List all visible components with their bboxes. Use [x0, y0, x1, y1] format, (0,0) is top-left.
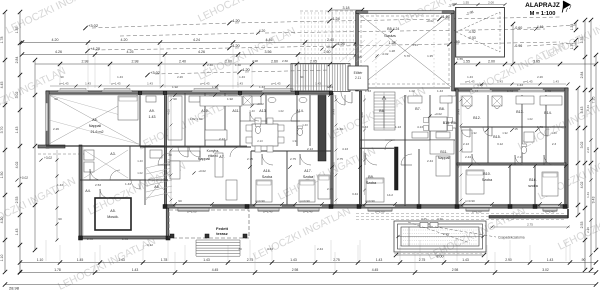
bottom dimension row 3 (y=284.5): [5, 284, 596, 286]
svg-text:+0.02: +0.02: [426, 19, 434, 23]
svg-text:3.18: 3.18: [343, 6, 350, 10]
B corridor staircase: [374, 92, 395, 130]
svg-text:A3.: A3.: [110, 152, 115, 156]
svg-text:M = 1:100: M = 1:100: [530, 11, 556, 17]
svg-text:2.26: 2.26: [537, 75, 543, 79]
svg-text:ALAPRAJZ: ALAPRAJZ: [525, 2, 560, 9]
svg-text:A7.: A7.: [219, 155, 224, 159]
svg-text:B15.: B15.: [493, 135, 500, 139]
bath divider 1: [487, 95, 489, 163]
svg-text:B12.: B12.: [473, 116, 480, 120]
garage east wall: [452, 11, 455, 91]
entry hall arc: [335, 95, 345, 105]
svg-text:A8.: A8.: [154, 185, 159, 189]
right retaining wall: [489, 216, 568, 219]
B7/B11 divider: [360, 139, 455, 141]
svg-text:2.60: 2.60: [282, 59, 288, 63]
svg-text:1.02: 1.02: [278, 109, 284, 113]
svg-text:3.43: 3.43: [457, 109, 461, 115]
dim row above ramp: [455, 4, 505, 6]
garden dim ticks: [56, 159, 59, 162]
B9 east black wall: [395, 147, 399, 190]
svg-text:3.43: 3.43: [332, 109, 336, 115]
dining table set: [252, 124, 278, 146]
svg-text:+4.20: +4.20: [90, 46, 101, 51]
svg-text:3.12: 3.12: [497, 142, 503, 146]
pool divider + center dim: [408, 227, 410, 246]
svg-text:1.02: 1.02: [137, 171, 143, 175]
garage inner dashed insulation line: [361, 16, 449, 84]
right dimension vertical line x=591: [590, 20, 592, 270]
B-wing north rooms extra fixtures: [408, 96, 422, 103]
svg-text:1.43: 1.43: [15, 229, 19, 236]
svg-text:+0.02: +0.02: [20, 176, 28, 180]
svg-text:2.98: 2.98: [82, 60, 89, 64]
kitchen island small: [205, 130, 227, 140]
A9/A10 small fixtures: [146, 96, 156, 102]
left wing bottom wall west stub: [38, 145, 65, 148]
svg-text:3.43: 3.43: [362, 125, 368, 129]
east exterior wall: [565, 88, 568, 208]
svg-text:4.64: 4.64: [477, 83, 483, 87]
svg-text:p=0.90: p=0.90: [465, 199, 475, 203]
wall center spine: [331, 93, 333, 206]
garage west wall: [356, 11, 359, 91]
svg-text:1.78: 1.78: [161, 258, 168, 262]
B10 west wall: [509, 165, 511, 206]
A-wing small rooms top: [184, 93, 186, 146]
svg-text:2.13: 2.13: [307, 147, 313, 151]
driveway vertical dashes: [300, 12, 302, 60]
svg-text:2.75: 2.75: [419, 258, 426, 262]
stairs at lower-left of terrace: [196, 239, 240, 241]
svg-text:1.28: 1.28: [389, 41, 396, 45]
svg-text:2.40: 2.40: [179, 60, 186, 64]
garage north wall: [356, 11, 454, 14]
svg-text:1.02: 1.02: [409, 89, 415, 93]
extension lines top: [87, 44, 89, 89]
bathroom cluster extras: [243, 96, 252, 105]
svg-text:3.12: 3.12: [147, 243, 153, 247]
left dimension vertical line x=20: [19, 12, 21, 272]
svg-text:+0.02: +0.02: [256, 102, 264, 106]
B12/B13 shower squares: [462, 96, 472, 106]
garage X cross: [359, 14, 451, 87]
svg-text:4.02: 4.02: [15, 162, 19, 169]
svg-text:p=1.43: p=1.43: [60, 82, 69, 86]
csapadekcsatorna leader: [430, 226, 496, 237]
svg-text:B14.: B14.: [544, 111, 551, 115]
east wall of lower-left wing: [166, 206, 169, 239]
svg-text:1.35: 1.35: [15, 27, 19, 34]
svg-text:2.60: 2.60: [324, 50, 331, 54]
svg-text:2.26: 2.26: [586, 227, 590, 233]
B living west wall: [456, 89, 458, 206]
svg-text:1.43: 1.43: [117, 75, 123, 79]
living south wall: [140, 146, 251, 148]
svg-text:+0.02: +0.02: [434, 112, 442, 116]
B hall east wall: [418, 149, 420, 205]
svg-text:3.44: 3.44: [352, 192, 358, 196]
svg-text:A10.: A10.: [201, 109, 208, 113]
svg-text:4.46: 4.46: [266, 38, 273, 42]
svg-text:1.35: 1.35: [570, 24, 574, 31]
svg-text:B8.: B8.: [439, 107, 444, 111]
svg-text:1.43: 1.43: [497, 80, 503, 84]
covered terrace (Fedett terasz): [169, 210, 249, 238]
svg-text:1.50: 1.50: [0, 172, 4, 179]
garage apron diagonal hatch: [340, 40, 365, 62]
svg-text:0.30: 0.30: [437, 217, 443, 221]
windows on south wall: [175, 205, 212, 207]
svg-text:.90: .90: [581, 258, 586, 262]
svg-text:4.02: 4.02: [457, 162, 461, 168]
svg-text:1.43: 1.43: [249, 109, 255, 113]
svg-text:p=1.43: p=1.43: [272, 82, 281, 86]
svg-text:2.98: 2.98: [132, 60, 139, 64]
svg-text:1.43: 1.43: [553, 80, 559, 84]
svg-text:A9.: A9.: [149, 109, 154, 113]
svg-text:4.20: 4.20: [121, 38, 128, 42]
terrace dashed band: [356, 213, 566, 215]
svg-text:2.98: 2.98: [252, 59, 258, 63]
svg-text:15: 15: [514, 127, 518, 131]
svg-text:3.02: 3.02: [580, 142, 584, 149]
svg-text:2.40: 2.40: [207, 63, 213, 67]
svg-text:1.43: 1.43: [147, 82, 153, 86]
right dimension vertical line x=578: [577, 88, 579, 215]
B8 closet: [448, 96, 456, 128]
svg-text:+0.02: +0.02: [198, 169, 206, 173]
svg-text:4.45: 4.45: [372, 268, 379, 272]
svg-text:4.20: 4.20: [232, 18, 241, 23]
top dimension line row 3 (y=64): [35, 63, 345, 65]
svg-text:2.44: 2.44: [427, 159, 433, 163]
svg-text:1.35: 1.35: [580, 37, 584, 44]
svg-text:15: 15: [358, 55, 362, 59]
svg-text:Szoba: Szoba: [482, 178, 492, 182]
svg-text:2.40: 2.40: [327, 38, 334, 42]
svg-text:p=0.90: p=0.90: [300, 199, 310, 203]
svg-text:2.26: 2.26: [586, 147, 590, 153]
svg-text:3.65: 3.65: [533, 60, 540, 64]
B corridor east wall: [404, 95, 406, 206]
svg-text:1.92: 1.92: [471, 131, 477, 135]
svg-text:2.00: 2.00: [488, 1, 494, 5]
interior ticks: [173, 93, 177, 97]
svg-text:1.43: 1.43: [507, 89, 513, 93]
svg-text:30: 30: [168, 153, 172, 157]
right side elevation labels: [527, 25, 576, 28]
svg-text:3.02: 3.02: [360, 112, 364, 118]
svg-text:B10. Étk.: B10. Étk.: [443, 120, 458, 125]
west exterior wall of left wing: [46, 91, 49, 148]
svg-text:3.02: 3.02: [15, 92, 19, 99]
B16 west wall: [534, 165, 536, 206]
svg-text:4.20: 4.20: [0, 217, 4, 224]
svg-text:A4.: A4.: [85, 189, 90, 193]
svg-text:9.43: 9.43: [592, 197, 596, 204]
south wall of lower-left wing: [79, 236, 169, 239]
svg-text:Csapadékcsatorna: Csapadékcsatorna: [498, 236, 525, 240]
svg-text:1.92: 1.92: [227, 97, 233, 101]
svg-text:A13.: A13.: [259, 109, 266, 113]
svg-text:4.02: 4.02: [167, 109, 171, 115]
svg-text:4.20: 4.20: [259, 29, 266, 33]
elevation leader dashes row D (y=72): [155, 72, 240, 74]
svg-text:14.2: 14.2: [387, 193, 393, 197]
garden dashed line: [38, 153, 92, 155]
right dimension vertical line x=596: [595, 55, 597, 250]
svg-text:Előtér: Előtér: [354, 71, 364, 75]
A8 west wall: [144, 146, 146, 205]
A3 room X marks: [84, 150, 128, 178]
svg-text:-0.53: -0.53: [468, 36, 476, 40]
svg-text:90: 90: [173, 97, 177, 101]
svg-text:1.43: 1.43: [259, 85, 265, 89]
svg-text:-0.96: -0.96: [514, 44, 522, 48]
svg-text:1.55: 1.55: [463, 1, 469, 5]
A16/A17 north wall: [251, 150, 331, 152]
svg-text:Szoba: Szoba: [303, 175, 313, 179]
chimney block: [318, 95, 326, 161]
svg-text:1.55: 1.55: [457, 57, 463, 61]
svg-text:1.82 1.90: 1.82 1.90: [190, 117, 203, 121]
svg-text:4.25: 4.25: [127, 50, 134, 54]
svg-text:2.26: 2.26: [53, 127, 59, 131]
entry room Elotér: [348, 66, 368, 90]
svg-text:A11.: A11.: [232, 109, 239, 113]
lower-left wing interior: [80, 179, 168, 181]
svg-text:-0.52: -0.52: [468, 30, 476, 34]
svg-text:1.43: 1.43: [551, 131, 557, 135]
svg-text:1.43: 1.43: [365, 89, 371, 93]
left dimension vertical line x=35: [34, 60, 36, 250]
svg-text:1.43: 1.43: [237, 82, 243, 86]
B bath north wall: [460, 126, 566, 128]
svg-text:1.43: 1.43: [586, 105, 590, 111]
svg-text:-0.02: -0.02: [382, 52, 389, 56]
window on west wall: [46, 103, 48, 131]
svg-text:1.43: 1.43: [118, 258, 125, 262]
bath fixtures: [465, 101, 470, 108]
svg-text:2.13: 2.13: [219, 137, 225, 141]
svg-text:1.43: 1.43: [302, 123, 308, 127]
svg-text:1.43: 1.43: [149, 115, 156, 119]
svg-text:B6.: B6.: [379, 109, 384, 113]
svg-text:2.75: 2.75: [290, 157, 296, 161]
svg-text:Nappali: Nappali: [89, 124, 101, 128]
svg-text:4.26: 4.26: [337, 41, 346, 46]
canopy vertical stripes: [291, 64, 350, 92]
B7/B8 closets: [412, 132, 428, 138]
elevation leader dashes row C (y=48): [95, 48, 230, 50]
svg-text:2.84: 2.84: [580, 72, 584, 79]
svg-text:Nappali: Nappali: [198, 157, 210, 161]
svg-text:terasz: terasz: [216, 231, 228, 236]
ramp rectangle with dashed triangle: [456, 8, 505, 58]
svg-text:1.70: 1.70: [570, 43, 574, 50]
svg-text:4.24: 4.24: [393, 27, 400, 31]
pool walls: [398, 224, 483, 249]
svg-text:1.92: 1.92: [172, 85, 178, 89]
svg-text:2.60: 2.60: [271, 60, 278, 64]
svg-text:1.43: 1.43: [517, 83, 523, 87]
svg-text:2.53: 2.53: [580, 222, 584, 229]
svg-text:1.43: 1.43: [239, 75, 245, 79]
svg-text:4.20: 4.20: [242, 67, 251, 72]
svg-text:2.05: 2.05: [310, 60, 317, 64]
B9 north wall: [360, 147, 394, 149]
north exterior wall left section: [46, 91, 332, 94]
svg-text:4.45: 4.45: [212, 268, 219, 272]
svg-text:1.43: 1.43: [122, 237, 128, 241]
interior vertical dim chains: [170, 95, 172, 205]
wall between left wing and living area: [164, 93, 166, 206]
svg-text:p=1.43: p=1.43: [201, 82, 210, 86]
svg-text:1.43: 1.43: [15, 127, 19, 134]
pool outer deck: [394, 221, 486, 252]
svg-text:1.43: 1.43: [437, 89, 443, 93]
svg-text:2.40: 2.40: [87, 237, 93, 241]
south exterior wall main: [165, 205, 568, 208]
svg-text:1.28: 1.28: [389, 49, 395, 53]
B wing dining table: [429, 117, 447, 131]
svg-text:2.75: 2.75: [247, 157, 253, 161]
svg-text:A16.: A16.: [263, 169, 270, 173]
svg-text:4.26: 4.26: [55, 50, 62, 54]
svg-text:2.98: 2.98: [452, 268, 459, 272]
svg-text:4.46: 4.46: [442, 14, 451, 19]
svg-text:1.43: 1.43: [57, 183, 63, 187]
svg-text:3.70: 3.70: [0, 127, 4, 134]
svg-text:3.02: 3.02: [542, 268, 549, 272]
svg-text:2.44: 2.44: [465, 155, 471, 159]
south window sills protruding: [178, 208, 209, 210]
svg-text:A5.: A5.: [110, 209, 115, 213]
svg-text:7.35: 7.35: [592, 97, 596, 104]
garage door opening line: [368, 11, 442, 14]
north arrow flag: [564, 1, 571, 8]
svg-text:B16.: B16.: [529, 178, 536, 182]
wall A6 east: [139, 93, 141, 146]
svg-text:4.13: 4.13: [417, 125, 423, 129]
svg-text:p=1.43: p=1.43: [112, 82, 121, 86]
extra door arcs corridor: [178, 147, 188, 157]
svg-text:2.44: 2.44: [317, 247, 323, 251]
svg-text:1.10: 1.10: [37, 258, 44, 262]
pool dotted water lines: [403, 229, 477, 231]
svg-text:1.73: 1.73: [537, 125, 543, 129]
svg-text:Konyha-: Konyha-: [207, 149, 220, 153]
extension lines bottom: [59, 245, 61, 261]
A16/A17 divider: [286, 151, 288, 205]
svg-text:1.43: 1.43: [376, 258, 383, 262]
svg-text:1.43: 1.43: [132, 268, 139, 272]
B7/B8 divider: [429, 95, 431, 140]
washing machine etc lower-left: [84, 150, 94, 160]
svg-text:1.73: 1.73: [545, 89, 551, 93]
svg-text:1.43: 1.43: [547, 258, 554, 262]
svg-text:90: 90: [300, 75, 304, 79]
A16 west wall: [250, 151, 252, 205]
svg-text:21.6 m2: 21.6 m2: [91, 130, 104, 134]
svg-text:4.20: 4.20: [232, 43, 241, 48]
svg-text:4.45: 4.45: [0, 82, 4, 89]
B wing west wall: [359, 91, 361, 206]
svg-text:2.84: 2.84: [15, 57, 19, 64]
svg-text:1.78: 1.78: [54, 268, 61, 272]
A7 sofa: [170, 151, 200, 161]
svg-text:B11.: B11.: [440, 150, 447, 154]
svg-text:4.24: 4.24: [332, 16, 341, 21]
svg-text:2.79: 2.79: [327, 187, 333, 191]
svg-text:p=1.43: p=1.43: [524, 80, 533, 84]
svg-text:Szoba: Szoba: [366, 181, 376, 185]
kitchen counter: [168, 96, 182, 140]
svg-text:p=1.43: p=1.43: [466, 80, 475, 84]
svg-text:A6.: A6.: [92, 118, 97, 122]
dim row right of pool: [490, 226, 570, 228]
svg-text:-0.60: -0.60: [514, 26, 522, 30]
A7 wardrobe: [215, 153, 223, 177]
svg-text:2.53: 2.53: [167, 159, 171, 165]
svg-text:1.92: 1.92: [502, 131, 508, 135]
svg-text:3.56: 3.56: [265, 50, 272, 54]
svg-text:A17.: A17.: [304, 169, 311, 173]
svg-text:2.53: 2.53: [95, 183, 101, 187]
svg-text:+3.02: +3.02: [88, 23, 99, 28]
svg-text:4.24: 4.24: [193, 38, 200, 42]
svg-text:3.43: 3.43: [267, 247, 273, 251]
svg-text:30: 30: [238, 247, 242, 251]
svg-text:2.00: 2.00: [488, 60, 495, 64]
elevation leader dashes row B (y=33): [120, 33, 260, 36]
svg-text:+0.20: +0.20: [326, 45, 334, 49]
svg-text:1.55: 1.55: [463, 60, 470, 64]
svg-text:1.43: 1.43: [125, 182, 131, 186]
top dimension line row 2 (y=54.5): [22, 54, 356, 56]
A6 X cross: [49, 95, 138, 144]
piers along south wall: [163, 205, 167, 209]
svg-text:2.60: 2.60: [225, 60, 232, 64]
wall A6 south: [46, 145, 165, 147]
svg-text:1.43: 1.43: [327, 85, 333, 89]
svg-text:Nappali: Nappali: [438, 156, 450, 160]
svg-text:2.13: 2.13: [257, 139, 263, 143]
svg-text:Garázs: Garázs: [384, 34, 396, 38]
svg-text:1.43: 1.43: [290, 258, 297, 262]
svg-text:4.13: 4.13: [412, 43, 418, 47]
svg-text:1.43: 1.43: [586, 192, 590, 198]
pool small equipment boxes: [420, 223, 428, 228]
inner insulation lines along exterior walls: [50, 94, 330, 96]
svg-text:4.26: 4.26: [198, 50, 205, 54]
svg-text:4.13: 4.13: [342, 147, 348, 151]
svg-text:90: 90: [60, 75, 64, 79]
svg-text:1.43: 1.43: [85, 82, 91, 86]
elevation leader dashes row A (y=23): [92, 23, 230, 28]
svg-text:2.75: 2.75: [333, 258, 340, 262]
dim row y=64 right section below ramp: [455, 63, 596, 65]
svg-text:90: 90: [58, 217, 62, 221]
north exterior wall right section: [455, 88, 568, 91]
west wall of lower-left wing: [79, 145, 82, 239]
svg-text:B5.: B5.: [387, 27, 392, 31]
svg-text:1.78: 1.78: [0, 37, 4, 44]
svg-text:+3.02: +3.02: [44, 156, 52, 160]
right dimension vertical line x=585: [584, 20, 586, 270]
